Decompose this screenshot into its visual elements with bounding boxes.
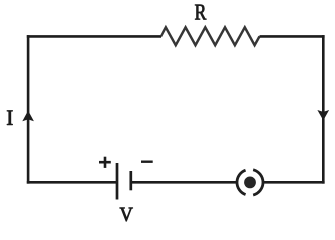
battery cell V: negative plate (short)	[129, 171, 132, 190]
indicator lamp (circle with centre dot), outer broken circle	[237, 170, 263, 195]
indicator lamp centre dot	[244, 177, 256, 189]
current arrow (upward) on left wire	[22, 111, 34, 122]
label V (cell voltage label)	[120, 208, 133, 222]
current arrow (downward) on right wire	[317, 110, 329, 120]
wire: bottom-right horizontal (node C to indicator right pin)	[263, 181, 325, 184]
label R (resistor value label)	[195, 5, 206, 20]
battery cell V: positive plate (long)	[116, 163, 119, 200]
wire: bottom-left horizontal (cell positive plate to node D)	[27, 181, 117, 184]
wire: top-left horizontal lead (node A to resistor R left pin)	[27, 35, 161, 38]
resistor R (zigzag element)	[161, 27, 260, 45]
label I (current label)	[7, 111, 13, 125]
wire: bottom-middle horizontal (indicator left pin to cell negative plate)	[131, 181, 237, 184]
wire: right vertical side (node B down to node C)	[322, 35, 325, 184]
wire: top-right horizontal lead (resistor R right pin to node B)	[260, 35, 325, 38]
polarity mark − (negative terminal)	[141, 160, 153, 162]
wire: left vertical side (node D up to node A)	[27, 35, 30, 184]
polarity mark + (positive terminal)	[99, 157, 111, 168]
